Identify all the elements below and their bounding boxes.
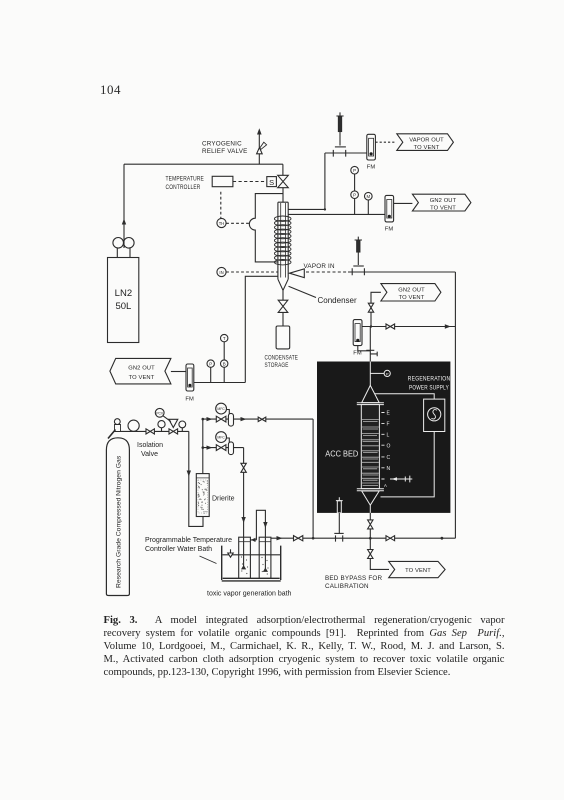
label REGENERATION POWER SUPPLY — [408, 376, 451, 392]
temperature controller box — [212, 176, 233, 186]
cryogenic relief valve — [257, 128, 267, 164]
wire power lead lower — [381, 432, 435, 497]
wire top header line — [124, 163, 283, 165]
banner VAPOR OUT TO VENT — [397, 134, 454, 151]
svg-text:TO VENT: TO VENT — [399, 295, 425, 301]
wire header elbow to valve — [282, 164, 284, 202]
svg-text:P: P — [353, 193, 356, 198]
svg-text:GN2 OUT: GN2 OUT — [398, 287, 425, 293]
bed bottom flange — [357, 489, 384, 491]
sample syringe at bed — [390, 476, 412, 483]
svg-text:VAPOR IN: VAPOR IN — [304, 263, 335, 270]
arrow up on dewar riser — [122, 219, 126, 225]
wire condenser bottom outlet — [245, 276, 278, 382]
gauge small on stem — [158, 421, 165, 432]
arrow down on drop — [187, 471, 191, 477]
svg-text:TO VENT: TO VENT — [405, 568, 431, 574]
wire LN2 dewar riser — [123, 164, 125, 248]
drierite column — [196, 474, 209, 517]
svg-text:Valve: Valve — [141, 451, 158, 458]
arrow on MFC1 branch — [207, 417, 213, 421]
wire bypass drop — [370, 538, 389, 569]
dashed wire TC to solenoid — [233, 181, 267, 183]
wire drierite riser — [202, 419, 204, 474]
MFC1 controller — [216, 403, 230, 414]
gauge M on stem — [365, 192, 373, 214]
wire valve to junction — [370, 312, 372, 326]
svg-text:VAPOR OUT: VAPOR OUT — [409, 137, 444, 143]
wire FM2 to GN2 banner — [394, 202, 413, 204]
wire FM4 to condenser riser — [194, 382, 246, 384]
svg-text:MFC: MFC — [217, 436, 225, 440]
svg-text:50L: 50L — [115, 301, 131, 312]
svg-text:TO VENT: TO VENT — [129, 375, 155, 381]
wire power lead upper — [375, 394, 435, 399]
valve V5 vertical — [368, 520, 373, 529]
svg-text:Controller Water Bath: Controller Water Bath — [145, 546, 212, 553]
wire MFC riser down — [312, 419, 314, 538]
bed column — [361, 405, 379, 489]
impinger bottle 1 — [239, 537, 251, 578]
svg-text:REGENERATION: REGENERATION — [408, 376, 451, 383]
gauge IN — [217, 267, 278, 276]
union fitting on bed riser — [366, 350, 377, 356]
wire top run to FM1 — [325, 152, 367, 154]
svg-text:Research Grade Compressed N: Research Grade Compressed Nitrogen Gas — [116, 455, 123, 588]
gauge dial large — [128, 420, 139, 431]
valve MFC1 — [216, 416, 226, 422]
wire drop to drierite — [189, 431, 203, 526]
svg-text:FM: FM — [367, 165, 376, 171]
valve V4 on run — [386, 324, 395, 329]
valve MFC2 — [216, 445, 226, 451]
septum port P1 — [333, 112, 346, 156]
bath pointer line — [200, 556, 217, 564]
svg-text:Condenser: Condenser — [318, 296, 357, 305]
svg-text:CRYOGENIC: CRYOGENIC — [202, 141, 242, 148]
pressure regulator — [169, 419, 178, 434]
svg-text:M: M — [366, 194, 370, 199]
solenoid valve V1 — [278, 175, 289, 187]
flow meter FM1 — [367, 134, 376, 170]
wire bed inlet riser — [369, 327, 371, 362]
bed bottom cone — [362, 491, 380, 505]
valve V7 on manifold — [386, 536, 395, 541]
gauge pair on stem right — [221, 334, 228, 382]
valve V3 vertical — [368, 303, 373, 312]
banner GN2 OUT TO VENT mid — [381, 284, 441, 301]
svg-text:CONTROLLER: CONTROLLER — [166, 184, 201, 191]
svg-text:O: O — [387, 443, 391, 449]
wire MFC1 branch — [203, 418, 313, 420]
septum syringe at panel corner — [336, 497, 343, 513]
wire FM3 run to right riser — [362, 326, 455, 328]
diffuser blob impinger 1 — [241, 565, 246, 569]
condenser jacket outline — [249, 194, 283, 262]
svg-text:GN2 OUT: GN2 OUT — [430, 198, 457, 204]
wire bed drain inside panel — [369, 505, 371, 513]
svg-text:P: P — [209, 362, 212, 367]
water bath tank — [222, 546, 281, 581]
rotameter MFC2 — [228, 442, 233, 455]
svg-text:FM: FM — [185, 397, 194, 403]
wire right riser to bottom — [454, 272, 456, 538]
condenser tube — [278, 202, 288, 290]
wire condenser top outlet A — [288, 153, 325, 209]
flow meter FM2 — [385, 195, 394, 232]
bridge tube between impingers — [250, 510, 265, 570]
svg-text:TO VENT: TO VENT — [430, 205, 456, 211]
svg-text:N: N — [387, 466, 391, 472]
label BED BYPASS FOR CALIBRATION — [325, 575, 383, 590]
wire vapor in solid run — [348, 271, 455, 273]
label Programmable Temperature Controller Water Bath — [145, 537, 232, 553]
septum port P2 — [352, 237, 364, 276]
arrow down feed — [241, 517, 245, 523]
node junction MFC2 — [202, 446, 205, 449]
svg-text:A: A — [384, 483, 387, 488]
bed top flange — [357, 403, 384, 405]
regeneration power supply unit — [424, 399, 445, 431]
label CONDENSATE STORAGE — [265, 355, 299, 370]
valve V6 on manifold — [294, 536, 303, 541]
svg-text:CONDENSATE: CONDENSATE — [265, 355, 299, 362]
svg-text:FM: FM — [385, 227, 394, 233]
svg-text:BED BYPASS FOR: BED BYPASS FOR — [325, 575, 383, 582]
svg-text:P: P — [353, 168, 356, 173]
label Isolation Valve — [137, 442, 163, 458]
wire banner to bed riser — [371, 292, 381, 303]
svg-text:STORAGE: STORAGE — [265, 362, 289, 369]
label TEMPERATURE CONTROLLER — [166, 176, 205, 191]
banner GN2 OUT TO VENT upper — [412, 194, 471, 211]
cylinder valve — [108, 419, 121, 439]
valve condensate V2 — [278, 300, 288, 312]
valve V10 vertical — [241, 463, 246, 472]
node junction manifold right — [441, 537, 444, 540]
svg-text:RELIEF VALVE: RELIEF VALVE — [202, 148, 248, 155]
svg-text:IN: IN — [219, 270, 223, 275]
wire bed drain below panel — [369, 513, 371, 538]
bed thermocouple ticks — [381, 413, 384, 480]
arrow on MFC2 branch — [207, 446, 213, 450]
septum port P3 — [334, 513, 343, 542]
svg-text:ACC BED: ACC BED — [325, 448, 358, 458]
svg-text:POWER SUPPLY: POWER SUPPLY — [409, 385, 449, 392]
drierite fill texture — [198, 480, 208, 514]
gauge P at bed top — [370, 370, 390, 376]
svg-text:MFC: MFC — [217, 407, 225, 411]
svg-text:TH: TH — [219, 221, 225, 226]
node junction MFC riser — [312, 537, 315, 540]
nitrogen cylinder — [106, 438, 129, 596]
impinger bottle 2 — [259, 537, 271, 578]
rotameter MFC1 — [228, 413, 233, 426]
label LN2 50L — [115, 288, 132, 312]
flow meter FM4 — [185, 364, 194, 403]
svg-text:S: S — [269, 178, 274, 187]
gauge TH — [217, 192, 250, 228]
gauge PCV — [155, 408, 171, 421]
svg-text:FM: FM — [353, 351, 362, 357]
condensate storage vessel — [276, 326, 290, 349]
dashed wire FM1 to vapor out banner — [375, 141, 396, 143]
arrow right on manifold — [277, 536, 283, 540]
bed top cone — [362, 385, 380, 402]
ACC bed enclosure photo panel — [317, 362, 450, 513]
LN2 dewar tank — [108, 238, 139, 343]
bed thermocouple letters — [384, 411, 391, 488]
svg-text:GN2 OUT: GN2 OUT — [128, 366, 155, 372]
wire MFC2 branch — [203, 447, 244, 449]
node junction MFC1 — [202, 418, 205, 421]
wire FM3 drain — [358, 346, 371, 351]
water level symbol — [228, 549, 233, 557]
banner GN2 OUT TO VENT left — [110, 358, 171, 384]
svg-text:LN2: LN2 — [115, 288, 132, 299]
wire condensate drain — [282, 290, 284, 326]
arrow on bridge inlet — [251, 538, 256, 542]
vapor in nozzle — [290, 269, 305, 278]
svg-text:TEMPERATURE: TEMPERATURE — [166, 176, 205, 183]
label CRYOGENIC RELIEF VALVE — [202, 141, 248, 155]
svg-text:B: B — [223, 362, 226, 367]
wire condenser to FM2 run B — [288, 213, 385, 215]
svg-text:toxic vapor generation bath: toxic vapor generation bath — [207, 590, 292, 597]
svg-text:L: L — [387, 433, 390, 439]
svg-text:F: F — [387, 422, 390, 428]
valve V8 vertical — [368, 550, 373, 559]
svg-text:C: C — [387, 455, 391, 461]
node junction riser-B — [324, 208, 326, 210]
condenser pointer line — [289, 286, 317, 297]
flow meter FM3 — [353, 320, 362, 357]
gauge P on stem — [351, 166, 359, 214]
wire vapor in dashed run — [306, 271, 348, 273]
svg-text:Drierite: Drierite — [212, 496, 235, 503]
arrow mid MFC1 branch — [241, 417, 247, 421]
solenoid coil box S — [267, 177, 277, 187]
arrow down bridge — [263, 522, 267, 528]
isolation valve — [146, 429, 154, 434]
wire regulator header — [121, 430, 189, 432]
svg-text:Isolation: Isolation — [137, 442, 163, 449]
svg-text:P: P — [386, 371, 389, 376]
svg-text:CALIBRATION: CALIBRATION — [325, 583, 369, 590]
gauge small right on stem — [179, 421, 186, 431]
wire bottom manifold — [271, 537, 455, 539]
arrow right on run — [445, 324, 451, 328]
gauge on stem left — [207, 360, 214, 383]
diffuser blob impinger 2 — [263, 568, 268, 572]
svg-text:Programmable Temperature: Programmable Temperature — [145, 537, 232, 544]
bed cloth layers — [362, 420, 379, 486]
water level line — [223, 554, 281, 556]
valve V9 on MFC1 branch — [258, 417, 266, 421]
node junction bed riser — [370, 325, 372, 327]
MFC2 controller — [216, 432, 230, 443]
svg-text:TO VENT: TO VENT — [414, 145, 440, 151]
banner TO VENT — [389, 561, 445, 577]
wire banner to FM4 — [171, 371, 186, 373]
svg-text:PCV: PCV — [156, 411, 164, 415]
svg-text:T: T — [223, 336, 226, 341]
wire bed inlet riser inside panel — [369, 362, 371, 386]
wire impinger feed drop — [243, 448, 245, 568]
node junction bed drain — [369, 537, 372, 540]
liquid speckles — [241, 556, 269, 574]
condenser coil — [274, 216, 291, 265]
